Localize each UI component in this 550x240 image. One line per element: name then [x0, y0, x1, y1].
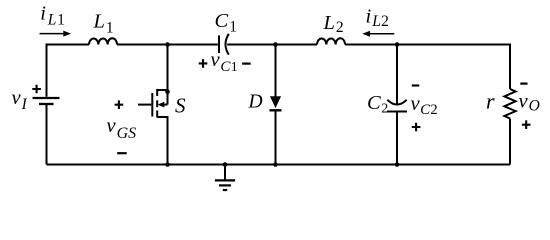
label vC1 minus sign [242, 62, 251, 64]
wire: resistor bottom to bottom-right corner [509, 119, 511, 165]
label C2 minus sign [412, 84, 420, 86]
transistor S (MOSFET) [138, 45, 168, 165]
wire: bottom rail, C2 to load corner [397, 164, 510, 166]
capacitor C1 [219, 34, 229, 55]
svg-text:S: S [175, 94, 186, 118]
label r plus sign [522, 120, 531, 129]
wire: bottom rail, S source to ground [168, 164, 226, 166]
junction dot: S body-drain tie [165, 89, 170, 94]
label gate plus sign [115, 100, 124, 109]
wire: C2 node to top-right corner and down to resistor r [397, 45, 510, 90]
wire: diode node to L2 [276, 44, 318, 46]
junction dot: top rail at C2 [395, 42, 400, 47]
wire: diode cathode to bottom rail [275, 110, 277, 164]
resistor r [504, 89, 515, 119]
label gate minus sign [117, 152, 127, 154]
wire: C2 bottom connection [396, 113, 398, 165]
wire: L2 to C2 top node [345, 44, 397, 46]
junction dot: bottom rail at S source [165, 162, 170, 167]
diode D [270, 96, 282, 110]
battery source vI [33, 98, 60, 104]
wire: bottom rail, diode to C2 bottom [276, 164, 398, 166]
wire: diode anode from top rail [275, 45, 277, 97]
current arrow iL2 [362, 31, 394, 37]
junction dot: bottom rail at ground [223, 162, 228, 167]
junction dot: top rail at S drain [165, 42, 170, 47]
junction dot: bottom rail at C2 [395, 162, 400, 167]
svg-text:D: D [248, 92, 263, 113]
label r minus sign [520, 82, 527, 84]
junction dot: top rail at diode anode [273, 42, 278, 47]
wire: C2 top connection [396, 45, 398, 105]
label C2 plus sign [412, 123, 421, 132]
ground [215, 165, 235, 191]
wire: C1 right plate to diode top node [227, 44, 275, 46]
svg-text:r: r [486, 89, 495, 114]
wire: bottom rail, battery to S source [47, 164, 168, 166]
junction dot: bottom rail at diode cathode [273, 162, 278, 167]
wire: bottom rail, ground to diode cathode [225, 164, 276, 166]
wire: battery positive up to top-left corner and to L1 [47, 45, 90, 97]
current arrow iL1 [40, 31, 72, 37]
capacitor C2 [387, 100, 407, 112]
inductor L1 [89, 38, 117, 44]
label vC1 plus sign [199, 59, 208, 68]
label battery plus sign [32, 85, 41, 94]
wire: battery negative down to bottom-left corner [46, 105, 48, 165]
wire: L1 to C1 left plate (node A) [117, 44, 218, 46]
inductor L2 [317, 38, 345, 44]
